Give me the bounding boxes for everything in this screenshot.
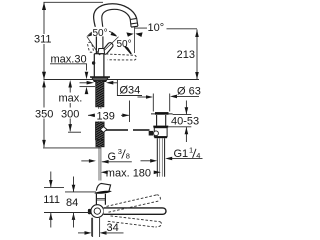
label max.30 underline	[50, 64, 87, 71]
spout arc inner	[102, 9, 131, 54]
escutcheon base shadow	[94, 80, 107, 82]
spout tip vertical ref line	[133, 27, 135, 53]
dim 311 arrow up	[42, 2, 46, 10]
dim o63 arrow left	[146, 95, 153, 99]
svg-text:350: 350	[35, 109, 53, 121]
angle 50 right leader arrow	[125, 47, 131, 54]
dim 311 text backing	[36, 34, 53, 44]
dim 34 right tail	[105, 232, 124, 234]
dim 40-53 arrow up	[185, 127, 189, 134]
angle arc 50 top	[88, 30, 117, 36]
escutcheon foot	[92, 78, 108, 81]
svg-text:111: 111	[43, 194, 60, 206]
spout aerator rung mid	[131, 22, 138, 25]
rod thin middle	[99, 107, 101, 122]
dim 111 top ref line	[44, 186, 64, 188]
dim 84 top tail	[73, 177, 75, 192]
svg-text:34: 34	[107, 222, 119, 234]
dim 111 arrow bottom	[49, 213, 53, 220]
dim 139 arrow right	[122, 114, 129, 118]
dim 84 arrow bottom	[72, 213, 76, 220]
dim 311 extension line top	[44, 1, 104, 3]
dim 34 left tail	[78, 232, 87, 234]
drain ball knob	[154, 131, 159, 136]
svg-text:40-53: 40-53	[171, 116, 199, 128]
hose nut	[96, 140, 104, 147]
dim max30 arrow down	[85, 72, 89, 80]
drain tailpipe inner lines	[160, 138, 163, 176]
dim 213 line	[196, 29, 198, 79]
dim 111 arrow top	[49, 180, 53, 187]
front view body band	[96, 198, 105, 200]
lever dashed left	[87, 42, 94, 53]
drain ext line left	[152, 94, 154, 112]
pop-up rod horizontal	[105, 129, 150, 131]
spout arc outer	[94, 4, 137, 54]
front view base lines	[93, 218, 100, 237]
dim 10 deg arrowhead right	[135, 32, 142, 37]
dim 350 line lower	[43, 87, 45, 147]
spout aerator left side	[129, 19, 132, 27]
svg-text:50°: 50°	[93, 28, 108, 39]
svg-text:84: 84	[66, 197, 78, 209]
angle arc 50 top arrow right	[111, 32, 118, 37]
svg-text:8: 8	[126, 152, 130, 161]
svg-text:213: 213	[177, 49, 195, 61]
drain basin line	[151, 113, 173, 115]
svg-text:139: 139	[97, 111, 115, 123]
svg-text:G: G	[108, 151, 117, 163]
dim 111 bottom tail	[50, 213, 52, 228]
hose end lines	[99, 147, 101, 181]
svg-text:10°: 10°	[148, 22, 165, 34]
front view dashed lever up	[107, 195, 161, 212]
angle 50 top text backing	[92, 27, 109, 37]
drain lower band	[154, 136, 167, 138]
label G1 1/4 underline	[168, 158, 203, 160]
pop-up rod drain connector	[149, 131, 154, 136]
svg-text:Ø 63: Ø 63	[177, 85, 201, 97]
dim max180 arrow left	[101, 171, 108, 175]
dim max30 arrow up	[85, 87, 89, 94]
dim 311 line	[43, 2, 45, 79]
drain upper tube	[157, 115, 166, 126]
label G3/8 opposite arrow	[81, 160, 89, 162]
label G1 1/4 arrow	[165, 157, 172, 161]
dim 34 ext line left	[91, 218, 93, 237]
front view aerator face	[94, 191, 112, 194]
dim 34 arrow left-in	[85, 231, 92, 235]
dim 84 bottom tail	[73, 213, 75, 228]
svg-text:3: 3	[118, 147, 122, 156]
dim max300 text max backing	[58, 93, 84, 104]
dim 84 arrow top	[72, 185, 76, 192]
dim max300 arrow up	[68, 80, 72, 88]
label G1 1/4 slash	[193, 149, 196, 158]
dim max300 text 300 backing	[61, 108, 80, 119]
front view left nub	[88, 209, 91, 214]
front view pivot outer	[91, 205, 104, 218]
dim max300 line	[69, 87, 71, 131]
svg-text:50°: 50°	[117, 39, 132, 50]
escutcheon top	[90, 76, 110, 78]
bottom ref line	[44, 212, 90, 214]
drain ext line right	[169, 94, 171, 112]
dim 84 top ref line	[65, 191, 96, 193]
svg-text:300: 300	[61, 109, 79, 121]
label G3/8 underline	[102, 161, 132, 163]
dim 10 deg arrowhead left	[126, 32, 133, 36]
faucet body	[94, 54, 104, 77]
svg-text:max.: max.	[59, 93, 83, 105]
spout aerator right side	[137, 18, 138, 26]
dim 40-53 line top	[185, 101, 187, 115]
dim 213 arrow up	[195, 30, 199, 37]
dim o34 arrow right	[112, 82, 117, 84]
dim 350 ref line	[43, 147, 101, 149]
dim max300 ref line	[68, 131, 81, 133]
angle fan radial left	[87, 37, 100, 56]
deck bottom line	[80, 86, 96, 88]
spout aerator rung bottom	[131, 25, 138, 28]
label G1 1/4 opposite arrow	[141, 160, 151, 162]
lever solid	[101, 42, 113, 55]
dim o34 arrow left	[80, 82, 88, 84]
dim max180 arrow right	[154, 171, 161, 175]
label G3/8 arrow	[102, 160, 109, 164]
pop-up knob dot	[92, 61, 95, 64]
spout aerator rung top	[130, 18, 137, 19]
svg-text:max. 180: max. 180	[106, 167, 151, 179]
dim 139 arrow left	[88, 114, 95, 118]
drain nut band	[153, 126, 168, 128]
angle arc 50 top arrow left	[87, 32, 94, 37]
dim max300 arrow down	[68, 124, 72, 132]
faucet neck	[98, 49, 105, 54]
dim 350 arrow up	[42, 80, 46, 88]
pop-up rod joint diamond	[100, 127, 107, 133]
front view body	[96, 194, 105, 205]
label o34 tick	[117, 80, 142, 96]
dim 40-53 ext line top	[173, 114, 192, 116]
front view lever bar	[104, 208, 166, 214]
dim o63 leader	[177, 95, 200, 97]
drain flange cap	[155, 112, 169, 115]
front view pivot inner	[94, 208, 100, 214]
dim 213 arrow down	[195, 72, 199, 79]
dim 40-53 ext line bottom	[168, 126, 191, 128]
angle fan radial right	[100, 37, 119, 55]
svg-text:1: 1	[189, 146, 193, 155]
svg-text:311: 311	[34, 34, 52, 46]
dim 139 text backing	[95, 109, 121, 122]
front view spout tip	[96, 183, 110, 191]
dim 40-53 line bottom	[185, 127, 187, 142]
dim 311 arrow down	[42, 72, 46, 80]
dim 10 deg leader	[135, 27, 197, 30]
drain tailpipe	[157, 138, 164, 177]
dim o63 arrow right	[170, 95, 177, 99]
dim 111 top tail	[50, 172, 52, 188]
label G3/8 slash	[122, 150, 126, 159]
dim 40-53 arrow down	[185, 107, 189, 114]
faucet body top line	[94, 53, 104, 55]
dim 350 text backing	[35, 108, 55, 119]
dim 34 arrow right-in	[100, 231, 107, 235]
dim 350 arrow down	[42, 140, 46, 148]
shank hatched upper	[96, 81, 104, 107]
dim 139	[88, 114, 129, 116]
deck top line	[44, 79, 200, 81]
shank hatched lower	[96, 122, 105, 140]
lever dashed right	[106, 54, 136, 60]
svg-text:Ø34: Ø34	[120, 85, 141, 97]
drain body	[154, 128, 167, 137]
dim o63 left tail	[138, 96, 148, 98]
front view dashed lever down	[108, 216, 162, 227]
dim 139 right tick	[129, 101, 131, 123]
